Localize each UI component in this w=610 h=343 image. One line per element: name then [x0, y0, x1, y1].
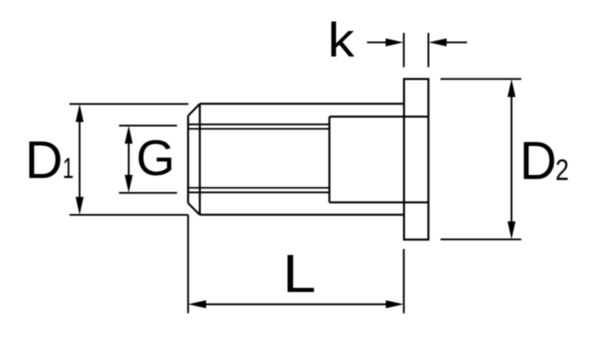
svg-text:D: D	[520, 131, 557, 191]
svg-text:L: L	[283, 244, 316, 305]
svg-text:1: 1	[63, 153, 74, 185]
svg-text:k: k	[328, 13, 355, 67]
svg-text:G: G	[136, 130, 175, 186]
svg-text:D: D	[25, 131, 63, 190]
svg-text:2: 2	[555, 154, 569, 187]
